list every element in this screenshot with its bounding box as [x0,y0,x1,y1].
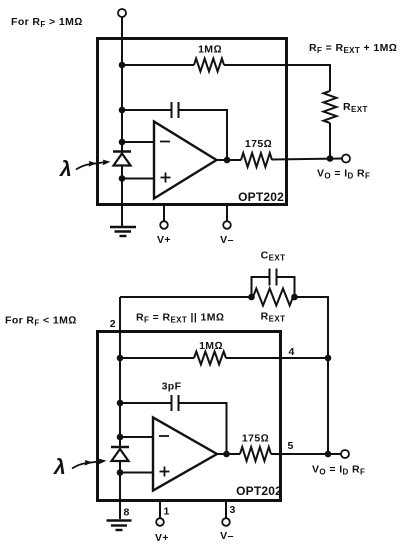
svg-text:V+: V+ [157,234,171,246]
svg-text:REXT: REXT [343,101,368,114]
svg-text:175Ω: 175Ω [245,138,272,150]
wire: V+ pin stub (top) [163,205,165,222]
terminal V- (top) [223,221,231,229]
wire: right rail REXT to output node (bottom) [295,297,329,454]
node: 1M tap on pin2 rail (bottom) [117,355,124,362]
resistor 1M-ohm internal feedback (bottom) [194,352,226,365]
wire: op-amp output to 175 resistor (bottom) [217,453,240,455]
node: REXT/CEXT left junction (bottom) [248,294,255,301]
ground symbol (bottom) [107,521,132,531]
wire: 175 resistor to output terminal (bottom) [271,453,341,455]
op-amp minus sign (bottom) [159,435,169,437]
terminal V+ (top) [160,221,168,229]
svg-text:For RF < 1MΩ: For RF < 1MΩ [5,315,77,328]
wire: photodiode anode down to ground (bottom) [119,461,121,519]
op-amp minus sign (top) [160,141,170,143]
svg-text:4: 4 [289,346,295,358]
wire: terminal to photodiode cathode (left rail, top) [121,17,123,151]
wire: inverting input (top) [122,141,154,143]
svg-text:CEXT: CEXT [261,250,286,263]
node: non-inverting input tap (bottom) [117,469,124,476]
output terminal VO (top) [342,155,350,163]
wire: pin2 rail from feedback wire down to photodiode (bottom) [119,297,121,447]
node: left rail / 1M feedback tap (top) [119,62,126,69]
node: output junction with REXT (top) [327,155,334,162]
IC body box OPT202 (top) [98,39,287,205]
wire: inverting input (bottom) [120,436,153,438]
svg-text:V+: V+ [155,532,169,544]
node: compensation cap tap on left rail (top) [119,107,126,114]
svg-text:VO = ID RF: VO = ID RF [317,168,370,181]
svg-text:λ: λ [53,456,66,479]
node: non-inverting input tap (top) [119,175,126,182]
photodiode D1 (top) [113,152,131,166]
light arrow to photodiode (bottom) [72,459,107,469]
node: 1M to right rail junction pin4 (bottom) [325,355,332,362]
photodiode D2 (bottom) [111,447,129,461]
svg-text:2: 2 [110,318,116,330]
svg-text:VO = ID RF: VO = ID RF [312,464,365,477]
svg-text:OPT202: OPT202 [238,190,284,204]
wire: 1M resistor right lead to right rail (bottom) [226,357,328,359]
node: inverting input tap (top) [119,139,126,146]
op-amp U2 (bottom) [153,418,217,491]
capacitor internal compensation (top) [172,102,179,118]
light arrow to photodiode (top) [76,160,111,170]
wire: REXT bottom lead to output node (top) [329,123,331,159]
svg-text:5: 5 [288,440,294,452]
svg-text:For RF > 1MΩ: For RF > 1MΩ [11,16,83,29]
input terminal (photodiode bias, top circuit) [118,9,126,17]
resistor 175-ohm internal (bottom) [240,447,271,461]
wire: pin3 V- stub (bottom) [225,501,227,519]
node: 3pF tap on pin2 rail (bottom) [117,400,124,407]
op-amp plus sign (top) [161,173,171,183]
capacitor CEXT bypass loop (bottom) [252,269,295,298]
wire: 1M resistor right lead to REXT branch (top) [224,65,330,91]
svg-text:3pF: 3pF [162,381,182,393]
wire: 1M resistor left lead (bottom) [120,357,194,359]
wire: 1M resistor left lead (top) [122,64,194,66]
node: inverting input tap (bottom) [117,434,124,441]
svg-text:3: 3 [230,504,236,516]
svg-text:1MΩ: 1MΩ [198,44,222,56]
svg-text:RF = REXT + 1MΩ: RF = REXT + 1MΩ [309,42,397,55]
svg-text:1MΩ: 1MΩ [199,340,223,352]
wire: external feedback top wire left segment (bottom) [120,296,252,298]
capacitor 3pF internal (bottom) [172,395,179,411]
wire: pin1 V+ stub (bottom) [159,501,161,519]
svg-text:V–: V– [220,234,234,246]
output terminal VO (bottom) [341,450,349,458]
resistor 175-ohm internal (top) [241,153,272,167]
terminal pin3 V- (bottom) [222,518,230,526]
svg-text:OPT202: OPT202 [236,484,282,498]
svg-text:V–: V– [220,530,234,542]
node: output junction with right rail (bottom) [325,451,332,458]
terminal pin1 V+ (bottom) [156,518,164,526]
wire: cap left lead (top) [122,109,172,111]
wire: photodiode anode to ground (top) [121,166,123,227]
wire: 3pF right lead down to op-amp output (bottom) [179,403,227,452]
resistor REXT external (bottom) [253,289,293,306]
svg-text:8: 8 [124,507,130,519]
wire: non-inverting input (top) [122,178,154,180]
wire: V- pin stub (top) [226,205,228,222]
svg-text:λ: λ [59,158,72,181]
wire: non-inverting input (bottom) [120,472,153,474]
op-amp plus sign (bottom) [160,467,170,477]
ground symbol (top) [110,227,136,236]
node: op-amp output junction (top) [224,157,231,164]
node: REXT/CEXT right junction (bottom) [291,294,298,301]
wire: op-amp output to 175 resistor (top) [216,159,241,161]
IC body box OPT202 (bottom) [98,332,281,501]
wire: 175 resistor to output terminal (top) [272,159,342,160]
resistor 1M-ohm internal feedback (top) [194,59,224,72]
node: op-amp output junction (bottom) [223,451,230,458]
wire: cap right lead down to op-amp output (top) [179,110,228,158]
svg-text:1: 1 [164,506,170,518]
wire: 3pF cap left lead (bottom) [120,402,172,404]
resistor REXT external (top, vertical) [324,91,337,123]
svg-text:REXT: REXT [261,311,286,324]
svg-text:RF = REXT || 1MΩ: RF = REXT || 1MΩ [136,312,224,325]
op-amp U1 (top) [154,122,217,199]
svg-text:175Ω: 175Ω [242,433,269,445]
